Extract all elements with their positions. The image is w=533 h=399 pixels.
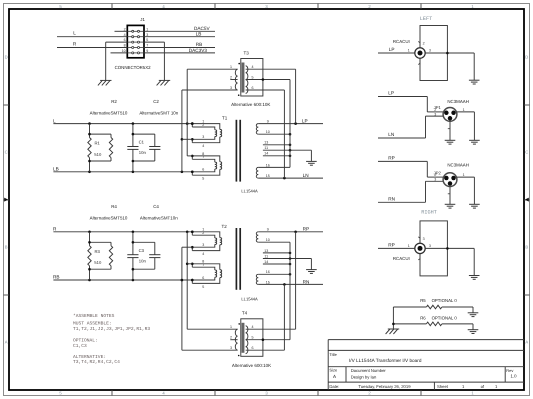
capacitor C2 (C1 alternative pair) xyxy=(127,99,178,172)
earth ground at JP2 pin1 xyxy=(469,204,480,208)
svg-text:10n: 10n xyxy=(139,258,147,263)
T3 left pin numbers xyxy=(230,65,232,90)
wire LP into JP1 pin2 xyxy=(378,91,443,112)
RCA shield stub xyxy=(418,58,420,64)
svg-text:3: 3 xyxy=(202,243,204,247)
wire LB from J1 pin3 xyxy=(144,32,215,37)
svg-text:5: 5 xyxy=(146,38,148,42)
resistor R6 OPTIONAL 0 xyxy=(393,315,473,329)
svg-text:RP: RP xyxy=(303,227,310,232)
svg-text:9: 9 xyxy=(146,49,148,53)
svg-text:C1,C3: C1,C3 xyxy=(73,343,87,349)
svg-text:6: 6 xyxy=(252,346,254,350)
svg-text:6: 6 xyxy=(124,38,126,42)
svg-text:AlternativeSMT 10n: AlternativeSMT 10n xyxy=(139,111,178,116)
svg-text:1.0: 1.0 xyxy=(511,374,518,379)
svg-text:2: 2 xyxy=(202,123,204,127)
svg-text:Sheet: Sheet xyxy=(437,384,449,389)
svg-text:2: 2 xyxy=(423,42,425,46)
svg-text:L: L xyxy=(53,118,56,123)
svg-text:LP: LP xyxy=(302,118,308,123)
svg-text:5: 5 xyxy=(252,76,254,80)
wire L input to J1 pin4 xyxy=(57,31,127,37)
wire net LB rail xyxy=(53,166,194,173)
connector JP1 NC3MAAH xyxy=(434,99,469,121)
wire JP2 shield to ground xyxy=(448,187,450,205)
svg-text:3: 3 xyxy=(230,86,232,90)
transformer T2 xyxy=(191,224,270,302)
T4 left pin numbers xyxy=(230,325,232,350)
svg-text:2: 2 xyxy=(124,27,126,31)
svg-text:3: 3 xyxy=(434,112,436,116)
svg-text:16: 16 xyxy=(266,163,270,167)
svg-text:6: 6 xyxy=(202,276,204,280)
wire RP into JP2 pin2 xyxy=(378,156,443,178)
transformer T2 primary winding 2 (pins 8,7,6,5) xyxy=(191,260,222,289)
T4 pin6 wire xyxy=(246,349,285,351)
wire T1 pin13 tap xyxy=(263,141,291,146)
svg-text:R1: R1 xyxy=(95,141,101,146)
svg-text:13: 13 xyxy=(264,249,268,253)
svg-text:4: 4 xyxy=(202,144,204,148)
svg-text:1: 1 xyxy=(146,27,148,31)
svg-text:1: 1 xyxy=(408,244,410,248)
svg-text:3: 3 xyxy=(429,49,431,53)
T4 pin2 stub xyxy=(230,339,237,341)
wire LP into J2 pin1 xyxy=(378,47,415,53)
svg-text:2: 2 xyxy=(202,231,204,235)
wire T4 pin5 up through taps to T2 pin10 xyxy=(289,242,291,340)
earth ground at T2 taps xyxy=(306,270,317,274)
connector JP2 NC3MAAH xyxy=(434,163,469,187)
wire RN into JP2 pin3 xyxy=(378,178,443,203)
svg-text:C: C xyxy=(5,150,8,155)
svg-text:R3: R3 xyxy=(95,249,101,254)
svg-text:RCACUI: RCACUI xyxy=(393,256,410,261)
svg-text:3: 3 xyxy=(423,237,425,241)
wire net R rail xyxy=(53,227,194,234)
wire T3 pin5 down through taps to T1 pin16 xyxy=(289,80,291,168)
svg-text:T3,T4,R2,R4,C2,C4: T3,T4,R2,R4,C2,C4 xyxy=(73,359,120,365)
T3 pin3 wire xyxy=(182,89,238,91)
svg-text:11: 11 xyxy=(264,254,268,258)
svg-text:T1: T1 xyxy=(222,115,228,120)
svg-text:MUST ASSEMBLE:: MUST ASSEMBLE: xyxy=(73,321,112,327)
T3 pin5 wire xyxy=(246,78,290,81)
svg-text:T2: T2 xyxy=(222,224,228,229)
svg-text:LEFT: LEFT xyxy=(420,16,432,22)
svg-text:B: B xyxy=(5,245,8,250)
svg-text:Document Number: Document Number xyxy=(351,368,387,373)
earth ground at J3 xyxy=(469,276,480,280)
transformer T3 xyxy=(182,50,296,107)
resistor R4 (R3 alternative pair) xyxy=(88,204,128,280)
T3 pin6 wire xyxy=(246,89,285,91)
transformer T1 core xyxy=(236,120,240,182)
wire DAC5V from J1 pin1 xyxy=(144,26,215,31)
svg-text:14: 14 xyxy=(264,260,268,264)
svg-text:T4: T4 xyxy=(242,310,248,315)
svg-text:9: 9 xyxy=(267,228,269,232)
wire JP2 pin1 to ground xyxy=(457,173,474,204)
svg-text:Alternative 600:10K: Alternative 600:10K xyxy=(232,363,271,368)
RCA pin2 stub xyxy=(418,237,424,243)
wire J1 pin10 stub xyxy=(111,52,128,54)
svg-text:I/V LL1544A Transformer I/V bo: I/V LL1544A Transformer I/V board xyxy=(349,358,422,363)
wire net LN rail (T1 pin15) xyxy=(258,173,323,180)
svg-text:Rev: Rev xyxy=(506,368,513,373)
wire T1 pin16 xyxy=(258,166,290,168)
wire T1 pin14 tap xyxy=(263,152,291,157)
svg-text:2: 2 xyxy=(230,336,232,340)
svg-text:L: L xyxy=(73,31,76,36)
wire R5/R6 left to chassis ground xyxy=(392,307,395,329)
svg-text:AlternativeSMT510: AlternativeSMT510 xyxy=(90,111,128,116)
wire JP1 pin1 to ground xyxy=(457,108,474,140)
svg-text:14: 14 xyxy=(264,152,268,156)
svg-text:3: 3 xyxy=(230,346,232,350)
svg-text:1: 1 xyxy=(463,108,465,112)
earth ground at J2 xyxy=(469,80,480,84)
svg-text:15: 15 xyxy=(266,280,270,284)
transformer T1 xyxy=(191,115,270,193)
wire net L rail xyxy=(53,118,194,125)
svg-text:RB: RB xyxy=(53,275,60,280)
earth ground at JP1 shield xyxy=(445,140,456,144)
wire T2 pin16 xyxy=(258,273,291,276)
svg-text:OPTIONAL:: OPTIONAL: xyxy=(73,338,98,344)
svg-text:510: 510 xyxy=(94,152,102,157)
wire J1 pin5 to ground xyxy=(144,42,164,80)
RCA shield stub xyxy=(418,254,420,260)
svg-text:Tuesday, February 26, 2019: Tuesday, February 26, 2019 xyxy=(358,384,411,389)
wire T3 pin4 down to LP xyxy=(295,69,297,123)
RCA jack body xyxy=(415,221,448,276)
svg-text:T1,T2,J1,J2,J3,JP1,JP2,R1,R3: T1,T2,J1,J2,J3,JP1,JP2,R1,R3 xyxy=(73,326,150,332)
svg-text:RCACUI: RCACUI xyxy=(393,39,410,44)
transformer T4 body xyxy=(235,319,263,357)
resistor R2 (R1 alternative pair) xyxy=(88,99,128,172)
wire T1 pin11 tap to ground xyxy=(263,146,312,161)
svg-text:5: 5 xyxy=(202,177,204,181)
svg-text:LB: LB xyxy=(196,32,202,37)
wire T4 pin6 up to RN xyxy=(283,284,285,350)
wire JP1 shield to ground xyxy=(448,121,450,140)
T3 right pin numbers xyxy=(252,65,254,90)
wire net RP rail (T2 pin9) xyxy=(258,227,323,234)
svg-text:C4: C4 xyxy=(153,204,159,209)
svg-text:J1: J1 xyxy=(140,17,145,22)
transformer T1 primary winding 2 (pins 8,7,6,5) xyxy=(191,152,222,181)
svg-text:4: 4 xyxy=(252,325,254,329)
svg-text:Date:: Date: xyxy=(329,384,339,389)
svg-text:10: 10 xyxy=(266,130,270,134)
svg-text:R6: R6 xyxy=(420,315,426,320)
wire J1 pin6 to ground xyxy=(106,42,128,80)
earth ground at T1 taps xyxy=(306,161,317,165)
transformer T2 secondary winding top (pins 9,10) xyxy=(256,228,270,243)
svg-text:510: 510 xyxy=(94,260,102,265)
svg-text:Size: Size xyxy=(329,368,338,373)
svg-text:1: 1 xyxy=(408,49,410,53)
connector J1 CONNECTOR5X2 xyxy=(115,17,152,70)
capacitor C4 (C3 alternative pair) xyxy=(127,204,178,280)
transformer T2 secondary winding bottom (pins 16,15) xyxy=(256,270,270,284)
svg-text:C2: C2 xyxy=(153,99,159,104)
T4 right pin numbers xyxy=(252,325,254,350)
svg-text:11: 11 xyxy=(264,146,268,150)
wire RB from J1 pin7 xyxy=(144,42,215,47)
wire T3 pin6 down to LN xyxy=(283,90,285,178)
wire T1 pin3 jumper wire xyxy=(182,138,192,140)
T3 pin2 stub xyxy=(230,79,237,81)
svg-text:LP: LP xyxy=(389,47,395,52)
svg-text:R5: R5 xyxy=(420,298,426,303)
earth ground at R5 xyxy=(468,313,479,317)
svg-text:9: 9 xyxy=(267,120,269,124)
svg-text:3: 3 xyxy=(434,178,436,182)
T4 pin3 wire xyxy=(182,349,238,351)
svg-text:Alternative 600:10K: Alternative 600:10K xyxy=(231,102,270,107)
earth ground at R6 xyxy=(468,330,479,334)
svg-text:16: 16 xyxy=(266,270,270,274)
connector J3 RCACUI xyxy=(393,221,448,276)
svg-text:8: 8 xyxy=(124,44,126,48)
wire T2 pin14 tap xyxy=(263,260,291,265)
wire T3 pin3 / T1 pins3-4 / LB vertical (node A) xyxy=(181,90,184,172)
RCA pin2 stub xyxy=(418,41,424,47)
wire net RN rail (T2 pin15) xyxy=(258,280,323,286)
chassis ground at J1 pin5 xyxy=(157,80,171,85)
wire T4 pin1 / T2 pins8-7 / R vertical xyxy=(186,232,192,329)
chassis ground at J1 pin6 xyxy=(98,80,112,85)
svg-text:T3: T3 xyxy=(244,50,250,55)
T4 pin4 wire xyxy=(246,328,296,330)
wire net LP rail (T1 pin9) xyxy=(258,118,323,124)
svg-text:6: 6 xyxy=(252,86,254,90)
svg-text:7: 7 xyxy=(202,263,204,267)
svg-text:AlternativeSMT510: AlternativeSMT510 xyxy=(90,216,128,221)
svg-text:NC3MAAH: NC3MAAH xyxy=(447,163,468,168)
svg-text:LB: LB xyxy=(53,166,59,171)
svg-text:Design by Ian: Design by Ian xyxy=(351,375,377,380)
border center markers xyxy=(4,198,8,202)
svg-text:4: 4 xyxy=(252,65,254,69)
T3 pin4 wire xyxy=(246,68,296,70)
wire T2 pin11 tap to ground xyxy=(263,254,312,269)
svg-text:7: 7 xyxy=(146,44,148,48)
transformer T2 core xyxy=(236,228,240,290)
transformer T1 primary winding 1 (pins 1,2,3,4) xyxy=(191,120,222,149)
svg-text:LP: LP xyxy=(388,91,394,96)
svg-text:3: 3 xyxy=(429,244,431,248)
svg-text:DAC3V3: DAC3V3 xyxy=(189,48,208,53)
svg-text:LN: LN xyxy=(303,173,309,178)
svg-text:A: A xyxy=(5,340,8,345)
svg-text:10: 10 xyxy=(266,238,270,242)
svg-text:R4: R4 xyxy=(111,204,117,209)
transformer T1 secondary winding bottom (pins 16,15) xyxy=(256,163,270,178)
svg-text:2: 2 xyxy=(434,108,436,112)
wire T3 pin1 / T1 pins8-7 / L vertical (node B) xyxy=(187,69,192,156)
svg-text:7: 7 xyxy=(202,155,204,159)
svg-text:OPTIONAL 0: OPTIONAL 0 xyxy=(432,315,458,320)
svg-text:2: 2 xyxy=(230,76,232,80)
earth ground at JP2 shield xyxy=(445,204,456,208)
svg-text:C3: C3 xyxy=(139,248,145,253)
svg-text:*ASSEMBLE NOTES: *ASSEMBLE NOTES xyxy=(73,313,115,319)
wire J2 pin3 to ground xyxy=(425,49,474,81)
svg-text:NC3MAAH: NC3MAAH xyxy=(447,99,468,104)
svg-text:RB: RB xyxy=(196,42,203,47)
assembly notes text xyxy=(73,313,150,365)
wire J1 pin2 stub xyxy=(115,30,128,32)
svg-text:10: 10 xyxy=(122,49,126,53)
svg-text:RP: RP xyxy=(388,242,395,247)
wire T2 pin13 tap xyxy=(263,249,291,254)
wire net RB rail xyxy=(53,275,194,282)
svg-text:5: 5 xyxy=(252,336,254,340)
wire DAC3V3 from J1 pin9 xyxy=(144,48,215,53)
svg-text:10n: 10n xyxy=(139,150,147,155)
svg-text:OPTIONAL 0: OPTIONAL 0 xyxy=(432,298,458,303)
svg-text:1: 1 xyxy=(463,173,465,177)
svg-text:B: B xyxy=(525,245,528,250)
svg-text:1: 1 xyxy=(230,65,232,69)
svg-text:C: C xyxy=(525,150,528,155)
wire RP into J3 pin1 xyxy=(378,242,415,248)
resistor R5 OPTIONAL 0 xyxy=(393,298,473,313)
wire T4 pin4 up to RP xyxy=(295,232,297,329)
svg-text:LL1544A: LL1544A xyxy=(241,188,258,193)
svg-text:4: 4 xyxy=(202,252,204,256)
wire T1 pin10 xyxy=(258,133,291,136)
svg-text:4: 4 xyxy=(124,33,126,37)
wire J3 pin3 to ground xyxy=(425,244,474,276)
svg-text:D: D xyxy=(5,55,8,60)
RCA jack body xyxy=(415,26,448,81)
transformer T1 secondary winding top (pins 9,10) xyxy=(256,120,270,135)
wire T4 pin3 / T2 pins3-4 / RB vertical xyxy=(181,247,184,350)
svg-text:RIGHT: RIGHT xyxy=(421,209,437,215)
svg-text:CONNECTOR5X2: CONNECTOR5X2 xyxy=(115,65,152,70)
svg-text:15: 15 xyxy=(266,174,270,178)
svg-text:LN: LN xyxy=(388,132,394,137)
T4 pin1 wire xyxy=(187,328,237,330)
title block xyxy=(328,340,524,390)
svg-text:5: 5 xyxy=(202,285,204,289)
svg-text:13: 13 xyxy=(264,141,268,145)
svg-text:LL1544A: LL1544A xyxy=(241,297,258,302)
svg-text:DAC5V: DAC5V xyxy=(194,26,211,31)
connector J2 RCACUI xyxy=(393,26,448,81)
wire T2 pin10 xyxy=(258,241,290,243)
wire LN into JP1 pin3 xyxy=(378,112,443,138)
svg-text:RN: RN xyxy=(388,197,395,202)
chassis ground at R5/R6 xyxy=(386,329,400,334)
transformer T3 body xyxy=(235,59,263,97)
svg-text:3: 3 xyxy=(146,33,148,37)
svg-text:3: 3 xyxy=(202,135,204,139)
svg-text:Title: Title xyxy=(329,352,337,357)
svg-text:A: A xyxy=(525,340,528,345)
wire R input to J1 pin8 xyxy=(57,41,127,47)
svg-text:A: A xyxy=(333,374,336,379)
svg-text:R2: R2 xyxy=(111,99,117,104)
svg-text:RN: RN xyxy=(303,280,310,285)
svg-text:C1: C1 xyxy=(139,140,145,145)
earth ground at JP1 pin1 xyxy=(469,140,480,144)
transformer T2 primary winding 1 (pins 1,2,3,4) xyxy=(191,228,222,256)
T3 pin1 wire xyxy=(187,68,237,70)
T4 pin5 wire xyxy=(246,338,290,341)
svg-text:1: 1 xyxy=(230,325,232,329)
svg-text:6: 6 xyxy=(202,168,204,172)
svg-text:D: D xyxy=(525,55,528,60)
svg-text:ALTERNATIVE:: ALTERNATIVE: xyxy=(73,354,106,360)
svg-text:2: 2 xyxy=(434,173,436,177)
transformer T4 xyxy=(182,310,296,368)
svg-text:AlternativeSMT10n: AlternativeSMT10n xyxy=(140,216,178,221)
wire T2 pin3 jumper wire xyxy=(182,246,192,248)
svg-text:RP: RP xyxy=(388,156,395,161)
